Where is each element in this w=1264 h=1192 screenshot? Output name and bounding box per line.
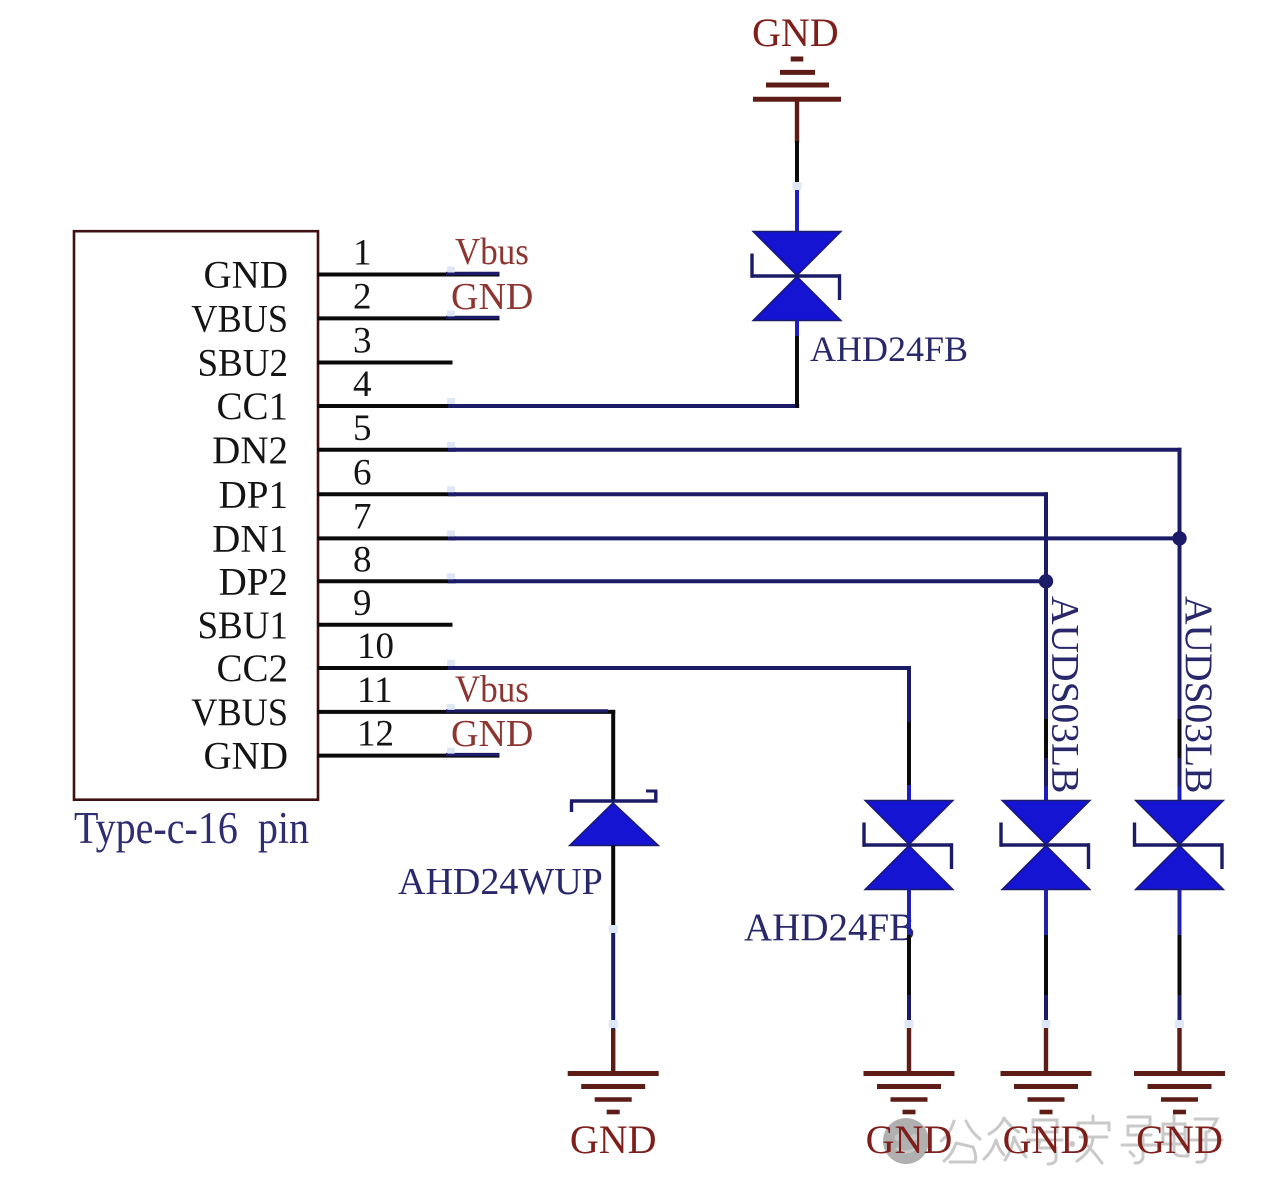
svg-text:GND: GND (204, 254, 289, 297)
watermark char zhong (984, 1118, 1026, 1160)
watermark separator dot (1069, 1141, 1075, 1147)
wire pin12 GND to net GND (318, 754, 500, 758)
svg-text:AHD24FB: AHD24FB (810, 329, 968, 369)
ground symbol top GND (791, 57, 804, 62)
wire pin2 VBUS to net GND (318, 316, 500, 320)
wire DN2 vertical (x=1179.5) (1178, 448, 1182, 719)
watermark char gong (941, 1121, 980, 1162)
wire pin6 DP1 horizontal (318, 492, 457, 496)
svg-text:10: 10 (357, 626, 394, 667)
wire diode D1 to CC1 net (795, 321, 799, 339)
svg-text:3: 3 (353, 321, 372, 362)
svg-text:4: 4 (353, 364, 372, 405)
svg-text:AUDS03LB: AUDS03LB (1043, 596, 1087, 794)
watermark logo circle (883, 1118, 929, 1164)
wire pin11 VBUS to net Vbus (318, 710, 616, 714)
wire D4 to ground (1044, 890, 1048, 937)
svg-text:SBU1: SBU1 (197, 604, 288, 647)
ground symbol (x=613.2) (568, 1071, 659, 1076)
svg-text:11: 11 (357, 670, 393, 711)
svg-text:Vbus: Vbus (455, 667, 529, 710)
svg-text:DP2: DP2 (219, 560, 288, 603)
watermark char zi (1190, 1119, 1222, 1162)
svg-text:7: 7 (353, 496, 372, 537)
wire pin3 SBU2 stub (318, 361, 453, 365)
wire pin4 CC1 horizontal (318, 404, 457, 408)
watermark char dian (1163, 1115, 1188, 1156)
svg-text:AHD24FB: AHD24FB (744, 906, 915, 949)
watermark char an (1077, 1116, 1109, 1163)
svg-text:GND: GND (1003, 1117, 1090, 1162)
svg-text:DN2: DN2 (212, 429, 288, 472)
wire pin1 GND to net Vbus (318, 273, 500, 277)
connector U1 Type-c-16 pin box (74, 231, 318, 800)
junction node DN1/DN2 (1172, 531, 1186, 545)
wire VBUS pin11 vertical (x=613) (611, 710, 615, 802)
svg-text:Vbus: Vbus (455, 230, 529, 273)
wire pin5 DN2 horizontal (318, 448, 457, 452)
svg-text:CC1: CC1 (216, 385, 288, 428)
svg-text:AHD24WUP: AHD24WUP (398, 861, 603, 903)
wire DP1 vertical (x=1046) (1044, 492, 1048, 719)
wire D3 to ground (907, 890, 911, 937)
svg-text:DN1: DN1 (212, 517, 288, 560)
TVS diode D1 AHD24FB (top, bidirectional) (753, 232, 841, 276)
svg-text:6: 6 (353, 452, 372, 493)
svg-text:GND: GND (451, 713, 533, 755)
wire pin9 SBU1 stub (318, 623, 453, 627)
svg-text:9: 9 (353, 583, 372, 624)
svg-text:5: 5 (353, 408, 372, 449)
junction node DP1/DP2 (1039, 574, 1053, 588)
svg-text:2: 2 (353, 276, 372, 317)
wire tick marks (faint) (447, 182, 1184, 1028)
wire D5 to ground (1178, 890, 1182, 937)
diode D2 AHD24WUP (unidirectional) (570, 799, 658, 802)
svg-text:GND: GND (204, 735, 289, 778)
watermark char dao (1122, 1117, 1156, 1163)
svg-text:GND: GND (1136, 1117, 1223, 1162)
svg-text:GND: GND (752, 10, 839, 55)
watermark char hao (1028, 1120, 1062, 1164)
TVS diode D5 AUDS03LB (bidirectional) (1136, 801, 1224, 845)
TVS diode D4 AUDS03LB (bidirectional) (1002, 801, 1090, 845)
svg-text:GND: GND (451, 276, 533, 318)
svg-text:Type-c-16 pin: Type-c-16 pin (74, 804, 309, 854)
svg-text:DP1: DP1 (219, 473, 288, 516)
svg-text:GND: GND (866, 1117, 953, 1162)
svg-text:1: 1 (353, 233, 372, 274)
TVS diode D3 AHD24FB (bottom, bidirectional) (865, 801, 953, 845)
svg-text:AUDS03LB: AUDS03LB (1177, 596, 1221, 794)
svg-text:8: 8 (353, 539, 372, 580)
ground symbol (x=909) (864, 1071, 955, 1076)
ground symbol (x=1046) (1001, 1071, 1092, 1076)
svg-text:VBUS: VBUS (191, 297, 288, 340)
svg-text:12: 12 (357, 714, 394, 755)
svg-text:VBUS: VBUS (191, 691, 288, 734)
wire CC2 vertical (x=909) (907, 666, 911, 722)
svg-text:SBU2: SBU2 (197, 342, 288, 385)
wire D2 to ground (611, 846, 615, 934)
svg-text:GND: GND (570, 1117, 657, 1162)
wire pin8 DP2 horizontal (318, 579, 457, 583)
ground symbol (x=1179.5) (1134, 1071, 1225, 1076)
svg-text:CC2: CC2 (216, 647, 288, 690)
wire pin7 DN1 horizontal (318, 536, 457, 540)
wire top ground to diode D1 (795, 141, 799, 189)
wire pin10 CC2 horizontal (318, 666, 457, 670)
